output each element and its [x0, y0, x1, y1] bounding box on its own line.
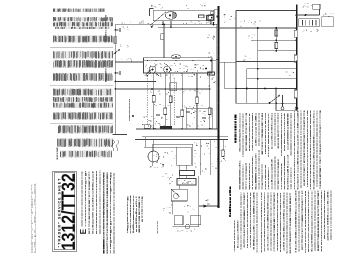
wire: rail into IF box [144, 60, 217, 62]
wire: row y40 [251, 39, 297, 41]
table side label [57, 157, 58, 159]
resistor R30 [275, 30, 278, 36]
resistor R1 [208, 15, 214, 20]
wire: HT feed to bus [199, 205, 218, 207]
copyright lines [30, 250, 33, 253]
heading: CIRCUIT DESCRIPTION [229, 215, 231, 217]
resistor R32 on right edge [294, 30, 297, 37]
note label: switches shown [129, 118, 130, 121]
wire: stage vertical 4 [181, 73, 183, 129]
transistor TR3 [164, 66, 171, 73]
gang dashed line 2 [174, 78, 176, 125]
wire: bus to right section stub [219, 61, 224, 63]
speaker label [156, 231, 159, 234]
wire stubs from aerial box [162, 21, 164, 25]
resistor stage 4 [181, 110, 184, 117]
wire: row y68 [247, 68, 297, 70]
wire: AVC bus [115, 88, 210, 90]
wire: stage vertical 5 [196, 73, 198, 129]
output labels [170, 177, 172, 178]
terminal at bus foot [217, 206, 220, 209]
wire: left border foot [113, 134, 127, 136]
coil L2 [161, 34, 164, 40]
wire: row y111 [276, 110, 297, 112]
transistor TR2 [149, 66, 156, 73]
battery terminal 1 [281, 107, 284, 110]
AF transformer box [186, 108, 212, 129]
wire: grid rail [115, 61, 143, 63]
capacitor C50 box [174, 216, 183, 225]
diagram caption column [127, 231, 128, 232]
frame aerial coil L1 [165, 11, 176, 19]
wire: speaker drop [178, 185, 180, 189]
right column upper [294, 187, 295, 189]
label cluster in right section [250, 21, 253, 24]
transistor TR2 arrow [145, 69, 153, 76]
coupling coil small box [144, 125, 150, 129]
wire: row y78 [247, 78, 297, 80]
wire: inner vertical 3 [275, 89, 277, 111]
resistor R20 box [190, 216, 200, 225]
wire: chassis rail 3 [135, 139, 228, 141]
wire: right section top rail [236, 10, 297, 12]
wire: stage vertical 6 [209, 73, 211, 129]
wire: battery top lead [297, 14, 320, 16]
transistor TR2 cluster [146, 67, 149, 70]
aerial lead-in wire [149, 9, 151, 17]
wire: output verticals [199, 140, 201, 176]
wire: output stage left [172, 201, 174, 215]
resistor stage 1 [152, 96, 155, 103]
wire: second rail [158, 26, 219, 28]
jack socket [185, 224, 189, 228]
battery cell component [313, 4, 320, 9]
capacitor C1 [114, 29, 116, 31]
bold model line [103, 250, 105, 253]
coil L3 [171, 55, 181, 59]
junction dots on right border [296, 14, 298, 16]
component cluster above chassis [151, 115, 152, 118]
wire: left border [114, 25, 116, 135]
resistor R2 [199, 15, 205, 18]
wire: inner vertical 2 [246, 69, 248, 104]
heading: ASSOCIATED MODELS [235, 141, 237, 143]
coil on chassis rail [160, 126, 172, 129]
wire: cell drop [319, 9, 321, 15]
svg-text:E: E [79, 228, 88, 234]
wire: row y88 [236, 88, 297, 90]
caption: for other components see table [105, 39, 106, 41]
magic eye box [224, 62, 236, 88]
output transformer T3 winding 2 [177, 179, 196, 186]
wire: stage vertical 3 [170, 73, 172, 129]
driver stage enclosure [153, 143, 193, 145]
capacitor C12 [186, 110, 190, 113]
title block box [53, 171, 77, 251]
junction dots on grid rail [147, 60, 149, 62]
components tables (rotated) [53, 8, 104, 12]
note paragraph [234, 250, 235, 251]
right column lower [295, 251, 296, 253]
component value labels [126, 26, 129, 29]
wire: osc vertical [163, 25, 165, 58]
table rule [50, 46, 113, 49]
wire: box to bus stub [214, 9, 219, 11]
table column gutters [66, 4, 67, 158]
junction dots right section [275, 27, 277, 29]
wire: bottom rail of output [173, 226, 199, 228]
wire: chassis rail 2 [142, 136, 228, 138]
loudspeaker box [171, 189, 187, 201]
transistor TR1 [113, 50, 120, 55]
battery terminal 2 [295, 107, 298, 110]
resistor R7 [208, 72, 215, 75]
wire: bus companion line [215, 25, 217, 129]
wire: HT right rail [219, 27, 297, 29]
gang dashed line 1 [146, 78, 148, 125]
wire: bottom row [236, 102, 297, 104]
wire: chassis rail 1 [136, 128, 219, 130]
capacitor C2 [114, 72, 116, 74]
intro paragraph [81, 224, 82, 227]
on/off switch S1 [270, 96, 280, 104]
capacitor C13 [202, 116, 206, 119]
bottom left text column [103, 250, 104, 254]
aerial squiggle [112, 140, 120, 148]
resistor stage 6 [208, 108, 211, 115]
wire: driver connections [144, 146, 177, 148]
wire: right section left vertical [235, 11, 237, 104]
HT bus heavy line [218, 6, 220, 208]
IFT box components [198, 71, 199, 74]
resistor stage 3 [169, 96, 172, 103]
valve V4 [148, 151, 159, 162]
output transformer T3 winding 1 [180, 171, 195, 176]
battery labels [310, 4, 311, 7]
wire: right inner vertical 1 [257, 28, 259, 103]
wire: row y62 [236, 61, 297, 63]
wire: stage vertical 2 [164, 73, 166, 129]
battery box [299, 19, 320, 27]
resistor stage 5 [196, 97, 199, 104]
resistor R3 [114, 37, 117, 44]
components left of HT bus [207, 16, 214, 21]
tuning arrow [150, 12, 166, 26]
wire: right border vertical [296, 5, 298, 111]
resistor R31 [275, 43, 278, 49]
resistor R34 on right edge [294, 90, 297, 98]
labels above tuner box [155, 6, 156, 9]
wire: HT top rail [115, 23, 218, 25]
IF amplifier box [144, 58, 213, 73]
associated models list [239, 149, 240, 152]
resistor R15 [222, 150, 225, 157]
driver transformer box [177, 147, 192, 165]
capacitor C10 [156, 113, 160, 116]
HT arrow [204, 205, 208, 208]
resistor R33 on right edge [294, 55, 297, 62]
wire: stage vertical 1 [153, 73, 155, 129]
resistor stage 2 [164, 108, 167, 115]
junction dots on HT bus [218, 14, 220, 16]
labels above HT rail [191, 21, 194, 24]
wire: row y52 [258, 50, 297, 52]
capacitor C11 [176, 115, 180, 118]
svg-text:1312/TT32: 1312/TT32 [57, 173, 78, 250]
wire: output right vertical [198, 176, 200, 227]
wire: AGC line [115, 81, 155, 83]
frame aerial box [153, 10, 214, 20]
battery outline right [322, 17, 334, 27]
continuation paragraph [261, 250, 262, 253]
wire: switch drop [282, 95, 284, 107]
decoupling box [170, 83, 177, 91]
wire: transformer leads [178, 165, 180, 171]
